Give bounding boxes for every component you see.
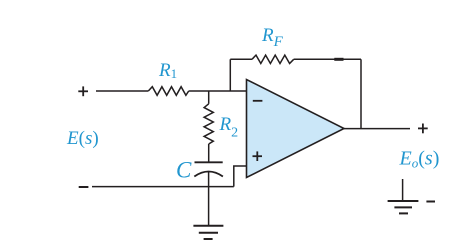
resistor R2	[204, 104, 213, 144]
node output + terminal	[418, 124, 428, 134]
svg-text:E(s): E(s)	[66, 128, 99, 149]
wire output	[344, 128, 410, 130]
wire bottom rail	[92, 186, 234, 188]
wire feedback top right	[294, 58, 361, 60]
op-amp minus input sign	[253, 100, 263, 102]
wire ground stub left	[208, 187, 210, 226]
resistor RF	[252, 55, 294, 63]
svg-text:R1: R1	[158, 60, 177, 81]
svg-text:R2: R2	[219, 114, 239, 141]
wire R2 branch stub	[208, 91, 210, 104]
node input + terminal	[78, 86, 88, 96]
wire capacitor to bottom rail	[208, 172, 210, 187]
svg-text:RF: RF	[261, 25, 284, 50]
ground right	[388, 201, 419, 213]
wire R1 to op-amp minus input	[189, 90, 247, 92]
op-amp plus input sign	[253, 151, 263, 161]
wire input top	[96, 90, 148, 92]
capacitor C top plate	[195, 161, 223, 163]
wire feedback left vertical	[229, 59, 231, 91]
junction tick on feedback wire	[334, 58, 343, 61]
svg-text:C: C	[176, 157, 192, 182]
capacitor C bottom curved plate	[194, 172, 223, 177]
ground left	[193, 226, 223, 239]
wire feedback top left	[230, 58, 252, 60]
node input - terminal	[79, 186, 89, 188]
wire R2 to capacitor	[208, 144, 210, 162]
svg-text:Eo(s): Eo(s)	[399, 148, 440, 171]
resistor R1	[148, 87, 188, 96]
node output - terminal	[426, 201, 435, 203]
op-amp U1	[247, 80, 345, 178]
wire bottom rail up to plus input	[234, 166, 247, 187]
wire ground stub right	[402, 179, 404, 201]
wire feedback right vertical	[360, 59, 362, 128]
